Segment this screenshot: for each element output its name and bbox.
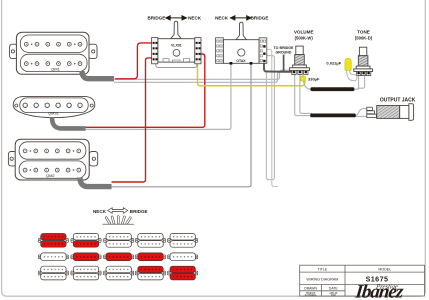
left terminal strip <box>152 38 158 64</box>
capacitor 330uF <box>301 76 306 81</box>
svg-text:NECK: NECK <box>215 16 229 21</box>
svg-text:OUTPUT JACK: OUTPUT JACK <box>380 98 416 104</box>
QM2 cable <box>80 178 112 187</box>
svg-text:VLX91: VLX91 <box>171 43 181 47</box>
legend neck humbucker pos3 off <box>104 266 134 280</box>
QMS1 cable <box>52 117 86 128</box>
svg-text:MODEL: MODEL <box>378 268 391 272</box>
tone pot 500K-D <box>354 47 373 75</box>
svg-text:WIRING DIAGRAM: WIRING DIAGRAM <box>306 277 338 281</box>
legend middle single coil pos2 on <box>71 253 101 261</box>
svg-text:QM1: QM1 <box>51 67 60 72</box>
svg-text:OTAX: OTAX <box>236 59 246 63</box>
svg-text:2000: 2000 <box>331 295 337 297</box>
wire: QMS1 ground to OTAX left lug <box>86 64 231 130</box>
arrow over VLX91 <box>166 16 187 20</box>
svg-text:TO BRIDGE: TO BRIDGE <box>274 46 295 50</box>
svg-text:BRIDGE: BRIDGE <box>130 209 148 214</box>
output jack <box>367 104 414 121</box>
legend bridge humbucker pos3 off <box>104 234 134 248</box>
legend middle single coil pos4 on <box>135 253 165 261</box>
legend bridge humbucker pos5 off <box>168 234 198 248</box>
legend neck humbucker pos5 both coils on <box>168 266 198 280</box>
legend neck humbucker pos2 off <box>71 266 101 280</box>
bottom lugs <box>230 62 233 65</box>
body <box>223 40 259 64</box>
wire: QMS1 hot (red) to VLX91 <box>86 54 205 127</box>
svg-text:DATE: DATE <box>329 287 339 291</box>
label VOLUME (500K-W) <box>294 29 314 40</box>
label NECK-BRIDGE over OTAX <box>215 16 268 21</box>
pickup QM1 (neck humbucker) <box>10 32 97 74</box>
wire: QM1 ground pair to volume pot <box>114 70 290 82</box>
svg-text:Prestige: Prestige <box>375 284 399 291</box>
label BRIDGE-NECK over VLX91 <box>147 16 201 21</box>
volume pot 500K-W <box>289 46 309 74</box>
legend middle single coil pos1 off <box>38 253 68 261</box>
svg-text:VOLUME: VOLUME <box>294 29 314 34</box>
pickup QM2 (bridge humbucker) <box>8 139 97 180</box>
label TONE (500K-D) <box>355 30 373 41</box>
body <box>158 39 195 62</box>
wire: QM1 hot (red) to VLX91 <box>115 43 152 79</box>
arrow over OTAX <box>230 16 251 20</box>
legend outline arrow <box>108 208 128 214</box>
legend middle single coil pos5 off <box>168 253 198 261</box>
capacitor 0.022uF <box>345 58 351 70</box>
svg-text:NECK: NECK <box>188 16 202 21</box>
lugs <box>292 70 296 74</box>
wire: VLX91 output (yellow) to volume pot lug 3 <box>198 62 305 86</box>
label TO BRIDGE GROUND <box>274 46 295 54</box>
lever <box>171 21 181 38</box>
svg-text:BRIDGE: BRIDGE <box>251 16 269 21</box>
shielded cable volume to output jack <box>295 75 367 117</box>
shielded cable volume to tone <box>303 75 365 90</box>
legend neck humbucker pos1 off <box>38 266 68 280</box>
svg-text:FUJIWARA: FUJIWARA <box>305 294 317 297</box>
base plate <box>156 59 197 67</box>
svg-text:(500K-D): (500K-D) <box>355 36 373 41</box>
wire: OTAX ground service loop to volume pot <box>266 56 274 180</box>
svg-text:TONE: TONE <box>357 30 370 35</box>
svg-text:DRAWN: DRAWN <box>304 287 317 291</box>
cable sleeve (black) volume-jack <box>310 114 356 118</box>
capacitor 0.022uF legs <box>347 70 357 81</box>
legend middle single coil pos3 on <box>104 253 134 261</box>
legend bridge humbucker pos4 off <box>135 234 165 248</box>
svg-text:BRIDGE: BRIDGE <box>147 16 165 21</box>
wire: ground from OTAX to volume pot lug1 (dark) <box>264 63 292 72</box>
left terminal strip <box>216 38 224 64</box>
svg-text:QM2: QM2 <box>46 173 55 178</box>
legend neck humbucker pos4 inner coil on <box>135 266 165 280</box>
cable sleeve (black) volume-tone <box>310 87 354 91</box>
Ibanez logo <box>353 282 405 300</box>
svg-text:0.022µF: 0.022µF <box>326 61 341 66</box>
wire: to-bridge-ground stub <box>283 55 285 72</box>
svg-text:(500K-W): (500K-W) <box>295 35 314 40</box>
legend lever fan <box>103 223 135 225</box>
switch VLX91 <box>152 21 201 67</box>
svg-text:NECK: NECK <box>93 209 107 214</box>
svg-text:QMS1: QMS1 <box>48 112 59 116</box>
wire: OTAX output dropper <box>267 50 278 187</box>
svg-text:TITLE: TITLE <box>317 268 327 272</box>
switch OTAX <box>216 22 267 64</box>
pickup QMS1 (middle single coil) <box>13 96 95 117</box>
QM1 cable <box>82 71 114 79</box>
svg-text:GROUND: GROUND <box>276 50 292 54</box>
wire: QM2 ground to OTAX right lug <box>112 64 252 187</box>
right terminal strip <box>259 38 267 64</box>
legend bridge humbucker pos2 inner coil on <box>71 234 101 248</box>
right terminal strip <box>195 38 201 64</box>
svg-text:330µF: 330µF <box>308 76 320 81</box>
legend bridge humbucker pos1 both coils on <box>38 234 68 248</box>
title block texts <box>304 268 391 298</box>
lever <box>236 22 246 40</box>
wire: QM2 hot (red) to VLX91 <box>112 58 153 182</box>
legend: NECK-BRIDGE selector <box>93 209 148 214</box>
title block <box>300 265 425 296</box>
